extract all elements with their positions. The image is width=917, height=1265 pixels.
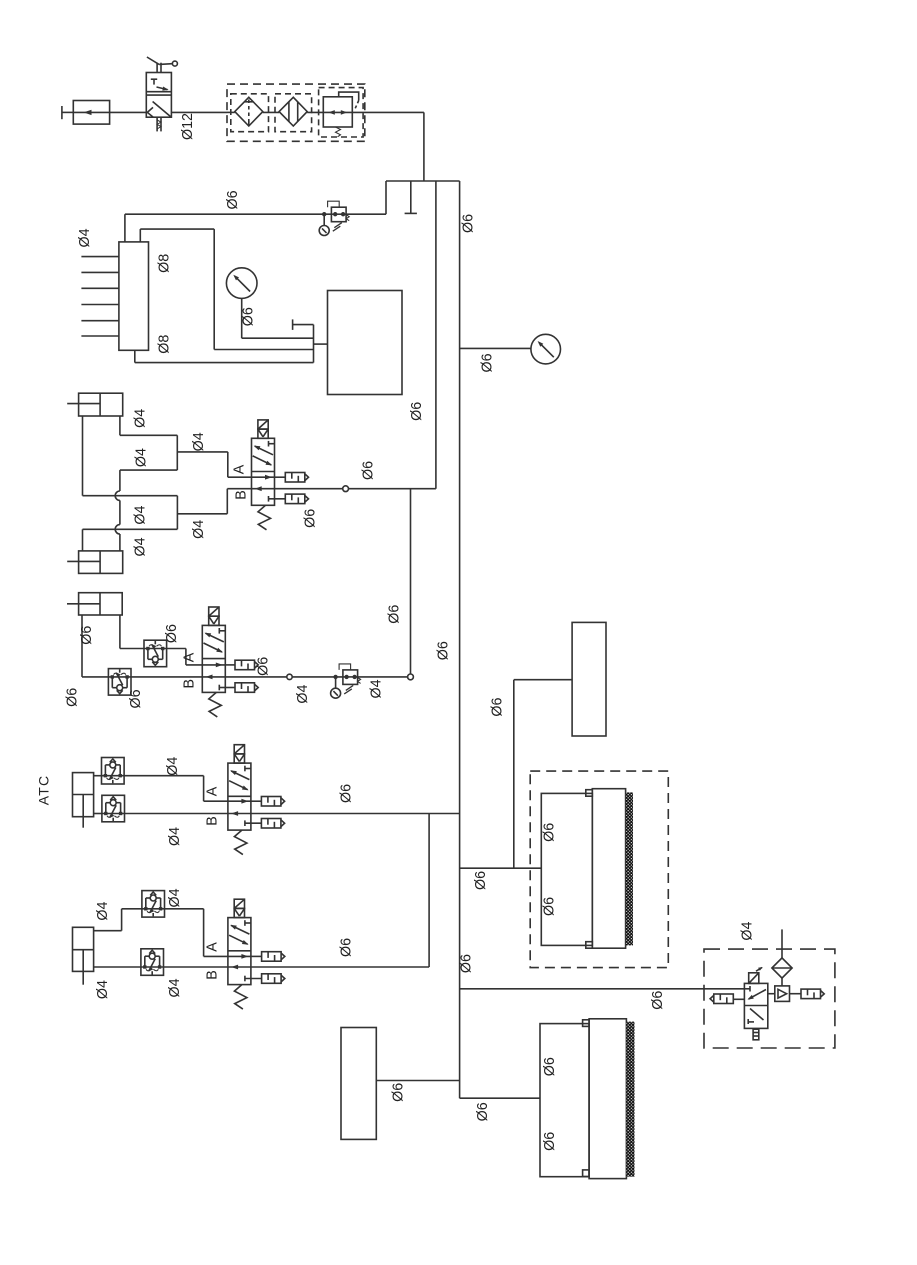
wire regulator line (125, 213, 386, 215)
wire V2 B out (225, 676, 343, 678)
label diameter 6 row3 (339, 784, 355, 803)
label diameter 4 row3 a (165, 757, 181, 776)
air knife 1 tabs (586, 790, 593, 949)
label diameter 6 riser (386, 605, 402, 624)
V0 actuator stems (157, 63, 161, 73)
wire FC3 to V3 port A (124, 776, 228, 802)
wire bus to vacuum unit (460, 988, 745, 990)
wire gauge G1 stem (242, 298, 314, 338)
label diameter 6 row2 b (164, 624, 180, 643)
wire CY2 rod port with hops (115, 470, 177, 551)
label diameter 6 tank T3 (391, 1083, 407, 1102)
label diameter 6 row2 a (79, 626, 95, 645)
svg-text:Ø4: Ø4 (133, 448, 149, 467)
svg-text:A: A (232, 464, 248, 474)
svg-text:Ø4: Ø4 (191, 432, 207, 451)
solenoid valve V2 (202, 607, 258, 717)
bus B vertical (diam 6) (459, 181, 461, 1098)
pressure regulator R2 with gauge (319, 201, 349, 235)
svg-text:Ø6: Ø6 (339, 938, 355, 957)
coupling circle row1 (343, 486, 349, 492)
svg-text:ATC: ATC (36, 775, 52, 806)
shutoff valve V0 body (2/2 lever valve) (146, 73, 171, 118)
cylinder CY1 (67, 393, 123, 416)
vacuum control valve V5 (744, 967, 767, 1040)
label port A V4 (205, 942, 221, 952)
wire junction to valve V1 port B (177, 489, 251, 530)
svg-text:Ø6: Ø6 (64, 688, 80, 707)
solenoid valve V4 (228, 899, 285, 1009)
manifold block (119, 242, 149, 350)
label diameter 6 bus B mid (436, 641, 452, 660)
flow control FC5 (142, 891, 165, 918)
svg-text:Ø12: Ø12 (180, 113, 196, 140)
svg-text:Ø4: Ø4 (132, 409, 148, 428)
label diameter 4 row4 a (95, 902, 111, 921)
vacuum filter diamond (772, 958, 792, 978)
svg-text:A: A (205, 786, 221, 796)
wire manifold loop bottom (diam 8) (135, 350, 314, 362)
wire V3 B to bus (251, 813, 460, 815)
label diameter 4 row1 e (191, 520, 207, 539)
wire V1 B to bus A (275, 488, 436, 490)
svg-text:Ø6: Ø6 (79, 626, 95, 645)
svg-text:Ø6: Ø6 (436, 641, 452, 660)
wire CY1 cap port (83, 416, 178, 496)
label diameter 6 air knife 1 feed (473, 871, 489, 890)
riser row2 to row1 B (410, 489, 412, 674)
wire ejector to right silencer (790, 993, 802, 995)
label diameter 6 row2 c (64, 688, 80, 707)
coupling circle row2 left (287, 674, 292, 679)
wire to manifold (124, 214, 126, 242)
wire junction to valve V1 port A (177, 435, 251, 477)
label diameter 6 regulator line (225, 190, 241, 209)
vacuum ejector (768, 986, 790, 1002)
wire ATC bottom port to FC4 (94, 813, 102, 815)
V0 lever with knob (147, 57, 178, 66)
svg-text:Ø6: Ø6 (541, 897, 557, 916)
svg-text:Ø4: Ø4 (167, 827, 183, 846)
svg-text:Ø4: Ø4 (95, 902, 111, 921)
svg-text:Ø4: Ø4 (369, 679, 385, 698)
cylinder CY2 (67, 551, 123, 574)
svg-text:Ø6: Ø6 (461, 214, 477, 233)
air knife 2 outlet strip (626, 1022, 634, 1177)
label diameter 4 manifold (77, 228, 93, 247)
wire CY3 cap port (82, 615, 108, 677)
label diameter 6 AK2 upper (542, 1057, 558, 1076)
wire row4 bottom port to FC6 (94, 966, 141, 968)
flow control FC2 (108, 669, 131, 696)
wire V5 to left silencer (733, 998, 744, 1000)
label diameter 4 row1 b (191, 432, 207, 451)
wire FC4 to V3 port B (125, 813, 228, 815)
label diameter 4 row1 d (132, 506, 148, 525)
label diameter 4 row2 f (295, 685, 311, 704)
label port B V2 (182, 679, 198, 689)
filter with water separator F1 (227, 94, 279, 132)
label port B V4 (205, 970, 221, 980)
wire FC2 to V2 port B (131, 676, 202, 678)
wire filter to ejector (781, 978, 783, 986)
label diameter 4 row1 c (133, 448, 149, 467)
flow control FC4 (102, 795, 125, 822)
collector wire (314, 325, 328, 363)
label diameter 4 row3 b (167, 827, 183, 846)
label diameter 6 row2 d (128, 689, 144, 708)
svg-text:Ø6: Ø6 (256, 657, 272, 676)
label diameter 6 bus B lower (459, 954, 475, 973)
label diameter 4 row4 c (95, 980, 111, 999)
svg-text:Ø6: Ø6 (391, 1083, 407, 1102)
wire FC5 to V4 port A (165, 909, 228, 957)
svg-text:B: B (205, 816, 221, 826)
label diameter 6 gauge line (240, 307, 256, 326)
svg-text:Ø4: Ø4 (165, 757, 181, 776)
pressure regulator R1 (319, 88, 364, 137)
svg-text:Ø6: Ø6 (409, 402, 425, 421)
label diameter 6 row4 (339, 938, 355, 957)
wire V4 B to riser (251, 966, 429, 968)
supply inlet terminator (62, 106, 73, 119)
header wire (386, 180, 460, 182)
pressure gauge G1 (226, 268, 257, 299)
manifold outlet stubs (81, 257, 119, 336)
svg-text:Ø6: Ø6 (542, 1057, 558, 1076)
V0 exhaust port silencer (157, 117, 161, 131)
svg-text:Ø6: Ø6 (475, 1102, 491, 1121)
svg-text:Ø6: Ø6 (541, 823, 557, 842)
label diameter 6 AK1 lower (541, 897, 557, 916)
svg-text:B: B (234, 490, 250, 500)
flow control FC6 (141, 949, 164, 976)
wire row4 top port to FC5 (94, 909, 142, 931)
wire V0 to FRL (171, 111, 227, 113)
svg-text:Ø6: Ø6 (302, 509, 318, 528)
svg-text:Ø4: Ø4 (95, 980, 111, 999)
air knife 2 tabs (583, 1020, 590, 1177)
svg-text:Ø4: Ø4 (167, 888, 183, 907)
wire tank T3 to bus (376, 1080, 459, 1082)
label port B V1 (234, 490, 250, 500)
label diameter 6 vacuum feed (650, 991, 666, 1010)
label diameter 12 (180, 113, 196, 140)
air knife 1 outlet strip (626, 792, 633, 945)
wire FC1 to V2 port A (167, 649, 203, 665)
svg-text:Ø6: Ø6 (650, 991, 666, 1010)
svg-text:Ø4: Ø4 (739, 922, 755, 941)
svg-text:Ø6: Ø6 (240, 307, 256, 326)
tank T3 (341, 1028, 376, 1140)
svg-text:Ø8: Ø8 (156, 335, 172, 354)
wire FC6 to V4 port B (164, 966, 228, 968)
flow control FC1 (144, 640, 167, 667)
vacuum right silencer (801, 989, 824, 999)
wire FRL output (352, 112, 424, 181)
solenoid valve V3 (228, 745, 285, 855)
wire CY1 rod port (120, 416, 177, 435)
air knife 2 body (589, 1019, 626, 1179)
air knife 1 dashed enclosure (530, 771, 668, 968)
bus A vertical (diam 6) (435, 181, 437, 489)
wire CY2 cap port (83, 529, 178, 551)
svg-text:Ø6: Ø6 (225, 190, 241, 209)
svg-text:Ø4: Ø4 (191, 520, 207, 539)
wire bus to air knife 2 (460, 1097, 540, 1099)
wire bus to air knife 1 (460, 867, 542, 869)
plugged port on header (405, 181, 417, 213)
svg-text:Ø6: Ø6 (386, 605, 402, 624)
label diameter 4 row4 d (167, 978, 183, 997)
svg-text:Ø6: Ø6 (489, 698, 505, 717)
label diameter 6 row1 B (361, 461, 377, 480)
svg-text:Ø6: Ø6 (459, 954, 475, 973)
label ATC (36, 775, 52, 806)
vacuum unit dashed enclosure (704, 949, 835, 1048)
fine filter F2 (275, 94, 323, 132)
label port A V3 (205, 786, 221, 796)
label port A V2 (182, 652, 198, 662)
svg-text:Ø6: Ø6 (339, 784, 355, 803)
svg-text:Ø6: Ø6 (128, 689, 144, 708)
label diameter 6 AK2 feed (475, 1102, 491, 1121)
svg-text:Ø6: Ø6 (473, 871, 489, 890)
wire header to regulator line (385, 181, 387, 214)
svg-text:Ø4: Ø4 (167, 978, 183, 997)
label diameter 6 row2 e (256, 657, 272, 676)
air knife 1 plenum (541, 793, 592, 945)
label diameter 6 bus A (409, 402, 425, 421)
svg-text:B: B (182, 679, 198, 689)
svg-text:Ø6: Ø6 (480, 353, 496, 372)
label port B V3 (205, 816, 221, 826)
label diameter 4 row1 a (132, 409, 148, 428)
label diameter 6 header (461, 214, 477, 233)
svg-text:Ø4: Ø4 (132, 537, 148, 556)
wire manifold loop top (diam 8) (140, 229, 313, 349)
tank T2 (572, 622, 606, 736)
actuator block row4 (73, 927, 94, 984)
svg-text:Ø6: Ø6 (542, 1132, 558, 1151)
pressure gauge G2 (531, 334, 561, 364)
label diameter 8 upper (156, 254, 172, 273)
riser row4 to row3 B (428, 814, 430, 968)
vacuum left silencer (710, 994, 733, 1004)
wire vacuum filter up (781, 929, 783, 958)
pressure regulator R3 with gauge (331, 664, 361, 698)
label diameter 4 row1 f (132, 537, 148, 556)
svg-text:Ø4: Ø4 (132, 506, 148, 525)
svg-text:Ø4: Ø4 (295, 685, 311, 704)
wire to gauge G2 (460, 347, 531, 349)
svg-text:B: B (205, 970, 221, 980)
solenoid valve V1 (252, 420, 309, 530)
FRL outer dashed enclosure (227, 84, 365, 141)
air knife 1 body (592, 789, 625, 949)
label diameter 4 vacuum (739, 922, 755, 941)
label diameter 4 row2 g (369, 679, 385, 698)
plugged port near tank (293, 319, 314, 330)
ATC actuator block (73, 773, 94, 828)
cylinder CY3 (67, 593, 122, 615)
svg-text:A: A (205, 942, 221, 952)
svg-text:A: A (182, 652, 198, 662)
wire supply to shutoff valve (110, 111, 147, 113)
air knife 2 plenum (540, 1024, 589, 1177)
label diameter 6 AK1 upper (541, 823, 557, 842)
label diameter 6 AK2 lower (542, 1132, 558, 1151)
label diameter 6 tank T2 (489, 698, 505, 717)
coupling circle row2 right (408, 674, 414, 680)
label diameter 4 row4 b (167, 888, 183, 907)
svg-text:Ø8: Ø8 (156, 254, 172, 273)
wire ATC top port to FC3 (94, 775, 102, 777)
wire tank T2 down (514, 680, 572, 869)
label diameter 6 gauge G2 (480, 353, 496, 372)
flow control FC3 (102, 758, 125, 785)
svg-text:Ø6: Ø6 (164, 624, 180, 643)
svg-text:Ø6: Ø6 (361, 461, 377, 480)
label diameter 6 below V1 silencer (302, 509, 318, 528)
wire CY3 rod port to FC1 (120, 615, 144, 649)
one-way exhaust unit (box with left arrow) (73, 101, 109, 125)
label port A V1 (232, 464, 248, 474)
wire R3 to riser (358, 676, 408, 678)
svg-text:Ø4: Ø4 (77, 228, 93, 247)
label diameter 8 lower (156, 335, 172, 354)
tank T1 (328, 291, 403, 395)
